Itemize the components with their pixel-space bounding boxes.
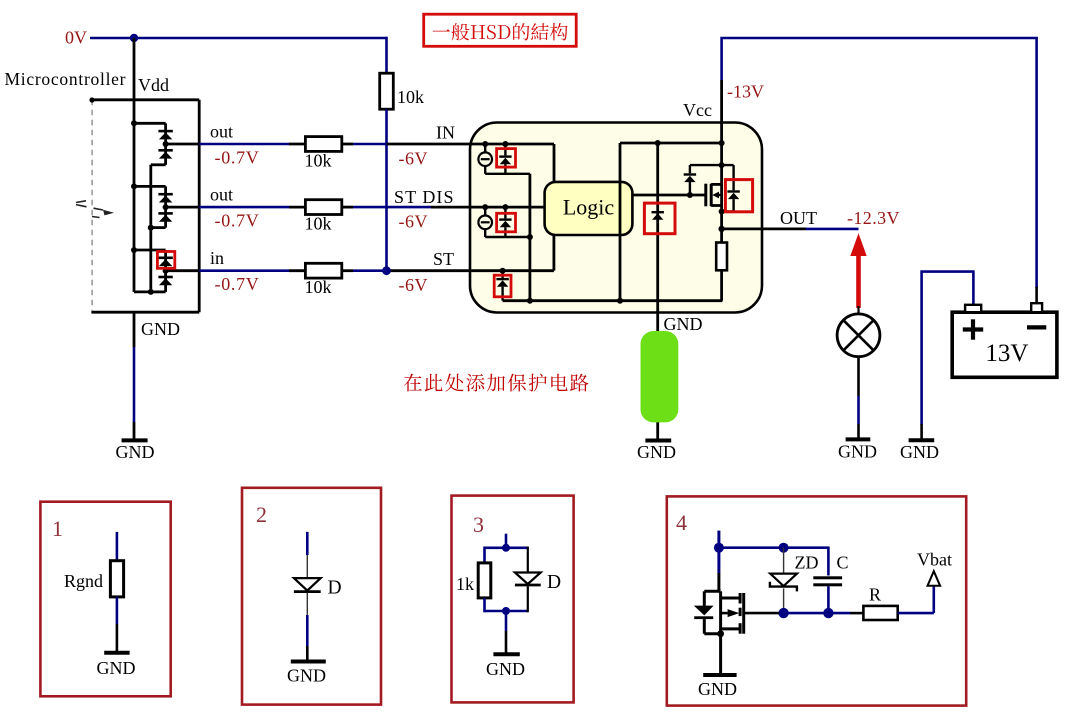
svg-text:IN: IN — [436, 123, 455, 143]
wire Vdd rail — [133, 100, 136, 292]
wire box3 stub — [502, 534, 510, 552]
svg-text:-0.7V: -0.7V — [215, 148, 260, 168]
label Vbat — [917, 550, 952, 570]
dots IN internal — [482, 141, 508, 147]
svg-text:ZD: ZD — [795, 553, 819, 573]
wire zd to mid — [778, 588, 788, 618]
red highlight square body diode — [725, 180, 752, 212]
wire box4 source top — [717, 531, 720, 592]
title text (chinese) — [433, 23, 568, 41]
svg-text:D: D — [547, 572, 561, 593]
red arrow annotation — [850, 233, 866, 308]
svg-text:-13V: -13V — [727, 82, 764, 102]
svg-text:10k: 10k — [305, 151, 332, 171]
vbat arrow — [928, 571, 941, 586]
label 2 — [256, 502, 267, 527]
label Vcc — [683, 100, 712, 120]
label 1k — [456, 574, 474, 594]
wire row1 bus — [485, 174, 530, 301]
wire box3 right top — [527, 547, 529, 573]
svg-text:R: R — [869, 585, 881, 605]
svg-text:-12.3V: -12.3V — [847, 208, 900, 228]
wire left bus — [620, 143, 722, 301]
svg-text:GND: GND — [698, 679, 737, 699]
dot ST internal — [500, 268, 506, 274]
wire box3 bottom — [485, 607, 528, 615]
wire box1 top — [116, 532, 119, 561]
wire chip GND pin — [656, 313, 659, 441]
ground box2 — [287, 662, 326, 686]
box3 border — [452, 496, 574, 703]
diode clamp on GND line — [652, 211, 664, 220]
wire box1 bottom — [116, 597, 119, 653]
wire cell common — [134, 165, 154, 295]
title box — [424, 14, 577, 46]
label 10k row1 — [305, 151, 332, 171]
ground box3 — [486, 654, 525, 679]
label chip GND pin — [664, 314, 703, 334]
wire box4 gnd — [719, 634, 722, 675]
box2 border — [242, 488, 381, 705]
ground box1 — [97, 653, 136, 678]
svg-text:GND: GND — [664, 314, 703, 334]
label -13V — [727, 82, 764, 102]
svg-text:10k: 10k — [305, 214, 332, 234]
wire row2 resistor to chip — [342, 206, 470, 209]
junction dot ST/10k — [382, 266, 391, 275]
svg-text:GND: GND — [116, 442, 155, 462]
wire resistor to bus — [720, 270, 723, 300]
svg-text:Logic: Logic — [563, 195, 615, 220]
wire c stub — [827, 547, 830, 576]
squiggle arrow annotation — [76, 201, 114, 218]
svg-text:in: in — [210, 248, 224, 268]
svg-text:ST: ST — [433, 249, 454, 269]
wire box3 right bottom — [527, 586, 529, 612]
svg-text:ST DIS: ST DIS — [394, 187, 454, 207]
wire box2 bottom — [306, 593, 308, 662]
wire box4 mid rail — [748, 612, 864, 615]
svg-text:3: 3 — [473, 512, 484, 537]
zener ZD — [770, 574, 797, 592]
node 0V label — [65, 28, 87, 48]
resistor 10k row1 — [305, 137, 341, 152]
wire ST internal — [470, 235, 554, 271]
red highlight square row2 diode — [497, 213, 516, 232]
label -0.7V row3 — [215, 274, 260, 294]
wire battery plus to gnd — [922, 272, 974, 441]
current source row1 — [478, 144, 492, 174]
svg-text:Vbat: Vbat — [917, 550, 952, 570]
label OUT — [780, 208, 817, 228]
label -6V row3 — [399, 275, 429, 295]
diode D box2 — [294, 578, 321, 592]
wire arrow to lamp — [857, 306, 859, 314]
dot top-left of box — [89, 97, 94, 102]
label -12.3V — [847, 208, 900, 228]
svg-text:10k: 10k — [397, 87, 424, 107]
svg-text:4: 4 — [676, 510, 687, 535]
wire GND pin — [133, 312, 136, 440]
logic block — [545, 182, 633, 235]
svg-text:GND: GND — [287, 666, 326, 686]
wire box2 top — [306, 532, 309, 578]
svg-text:10k: 10k — [305, 277, 332, 297]
label Microcontroller — [5, 69, 126, 89]
red highlight square gnd diode — [644, 203, 675, 234]
label -0.7V row2 — [215, 211, 260, 231]
svg-text:D: D — [328, 578, 342, 599]
wire box4 top rail — [714, 543, 829, 553]
label D box3 — [547, 572, 561, 593]
wire Vcc internal — [718, 80, 724, 243]
wire row2 bus — [485, 234, 533, 240]
svg-text:2: 2 — [256, 502, 267, 527]
resistor 10k pullup — [380, 73, 394, 109]
svg-text:GND: GND — [637, 442, 676, 462]
red highlight square row3 diode — [494, 275, 511, 297]
svg-text:OUT: OUT — [780, 208, 817, 228]
svg-text:GND: GND — [900, 442, 939, 462]
wire box3 gnd — [505, 611, 508, 654]
label in row3 — [210, 248, 224, 268]
dot top bus gnd — [655, 140, 661, 146]
label 10k pullup — [397, 87, 424, 107]
gate protection diode — [684, 162, 734, 195]
dot top bus vcc — [719, 140, 725, 146]
wire IN internal — [470, 144, 554, 182]
svg-text:0V: 0V — [65, 28, 87, 48]
wire c to mid — [823, 586, 833, 618]
diode row1 — [499, 144, 511, 174]
wire row2 mcu to resistor — [199, 206, 305, 209]
resistor 1k box3 — [478, 563, 491, 598]
diode D box3 — [515, 573, 541, 586]
label IN — [436, 123, 455, 143]
svg-text:C: C — [837, 553, 849, 573]
resistor output sense — [716, 243, 727, 271]
wire 0V rail — [90, 37, 387, 40]
label ZD — [795, 553, 819, 573]
svg-text:-6V: -6V — [399, 212, 429, 232]
ground mcu — [116, 440, 155, 462]
label -6V row1 — [399, 149, 429, 169]
resistor 10k row2 — [305, 200, 341, 215]
box4 border — [667, 496, 966, 705]
label 3 — [473, 512, 484, 537]
lamp — [837, 314, 880, 357]
wire bottom bus — [503, 298, 723, 304]
ground battery — [900, 440, 939, 462]
wire battery minus lead — [1035, 287, 1038, 304]
label 10k row3 — [305, 277, 332, 297]
svg-text:out: out — [210, 122, 233, 142]
svg-text:-6V: -6V — [399, 275, 429, 295]
svg-text:1: 1 — [52, 516, 63, 541]
wire box3 left top — [483, 547, 486, 563]
label -6V row2 — [399, 212, 429, 232]
wire Vcc top rail — [722, 38, 1037, 288]
wire lamp to gnd — [857, 357, 860, 440]
label ST DIS — [394, 187, 454, 207]
wire internal GND — [656, 143, 659, 313]
ground chip — [637, 441, 676, 462]
box1 border — [40, 502, 170, 697]
svg-text:GND: GND — [97, 658, 136, 678]
dots ST_DIS internal — [482, 204, 508, 210]
svg-text:-6V: -6V — [399, 149, 429, 169]
diode row3 — [496, 271, 508, 301]
mosfet Q box4 — [694, 591, 748, 637]
wire Vdd drop — [133, 38, 136, 100]
svg-text:GND: GND — [141, 319, 180, 339]
wire OUT — [722, 227, 859, 230]
ground box4 — [698, 675, 737, 699]
wire row3 resistor to chip — [342, 269, 470, 272]
body diode — [719, 165, 740, 214]
label Rgnd — [64, 571, 103, 591]
label Vdd — [138, 75, 169, 95]
resistor R box4 — [863, 606, 897, 620]
mosfet Q1 output — [632, 184, 721, 207]
label C — [837, 553, 849, 573]
ground lamp — [838, 439, 877, 461]
label 10k row2 — [305, 214, 332, 234]
svg-text:-0.7V: -0.7V — [215, 211, 260, 231]
hsd chip body — [470, 123, 762, 313]
label mcu GND pin — [141, 319, 180, 339]
svg-text:GND: GND — [486, 659, 525, 679]
wire zd stub — [783, 548, 785, 574]
wire ST_DIS internal — [470, 206, 545, 209]
wire row1 resistor to chip — [342, 143, 470, 146]
battery 13V — [952, 303, 1057, 377]
svg-text:Rgnd: Rgnd — [64, 571, 103, 591]
svg-text:GND: GND — [838, 442, 877, 462]
esd diode pair cell 3 — [131, 247, 199, 292]
junction dot at Vdd column — [130, 34, 138, 42]
svg-text:out: out — [210, 185, 233, 205]
capacitor C — [813, 576, 842, 586]
resistor 10k row3 — [305, 263, 341, 278]
wire row3 mcu to resistor — [199, 269, 305, 272]
svg-text:Vdd: Vdd — [138, 75, 169, 95]
label out row1 — [210, 122, 233, 142]
label D box2 — [328, 578, 342, 599]
label out row2 — [210, 185, 233, 205]
microcontroller dashed left edge — [91, 100, 93, 311]
wire row1 mcu to resistor — [199, 143, 305, 146]
svg-text:-0.7V: -0.7V — [215, 274, 260, 294]
green capsule protection placeholder — [641, 331, 679, 422]
label 4 — [676, 510, 687, 535]
label ST — [433, 249, 454, 269]
wire box3 left bottom — [483, 598, 486, 612]
microcontroller box — [91, 100, 199, 312]
red highlight square on cell3 diode — [157, 252, 174, 269]
wire 10k to ST junction — [385, 109, 388, 271]
label add protection here (chinese) — [404, 374, 589, 392]
svg-text:1k: 1k — [456, 574, 474, 594]
wire 0V rail drop to 10k — [385, 37, 388, 74]
esd diode pair cell 2 — [131, 183, 199, 227]
diode row2 — [499, 207, 511, 237]
svg-text:13V: 13V — [985, 340, 1028, 367]
svg-text:Microcontroller: Microcontroller — [5, 69, 126, 89]
label 1 — [52, 516, 63, 541]
red highlight square row1 diode — [497, 149, 516, 168]
label -0.7V row1 — [215, 148, 260, 168]
svg-text:Vcc: Vcc — [683, 100, 712, 120]
label R — [869, 585, 881, 605]
wire box3 top — [485, 546, 528, 549]
wire R to vbat — [898, 585, 934, 613]
resistor Rgnd — [110, 561, 123, 597]
current source row2 — [478, 207, 492, 237]
esd diode pair cell 1 — [131, 120, 199, 165]
